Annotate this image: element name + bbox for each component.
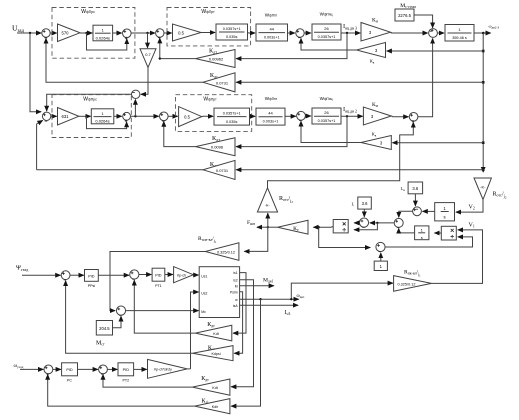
summing junction S3b row2 — [160, 112, 169, 121]
wire L to circle C top — [363, 209, 365, 217]
svg-text:0.0731: 0.0731 — [216, 168, 229, 173]
wire tap down to circle E — [319, 227, 371, 247]
wire Km row2 to sum S5b — [391, 115, 408, 118]
wire Ln to sum A top — [414, 194, 416, 206]
wire sum A to circle D top — [399, 211, 413, 217]
node junction feedback branch Kv row1 — [482, 50, 485, 53]
summing junction S4 row1 — [296, 29, 304, 37]
wire Kp-ch*sin2y to Us2 riser — [187, 368, 190, 370]
svg-text:631: 631 — [62, 114, 70, 119]
wire Kdi to W1 bottom — [48, 375, 195, 407]
node junction Iyac row2 — [346, 115, 348, 117]
svg-text:Кв: Кв — [370, 59, 375, 65]
wire is2 down to gain Kdt2 — [231, 280, 253, 387]
wire 631 to integrator row2 — [79, 115, 91, 117]
svg-text:44: 44 — [268, 111, 273, 116]
wire junction down to gain Rple-vl — [244, 227, 267, 251]
svg-text:26: 26 — [324, 110, 329, 115]
wire w down to gain Kdi — [231, 299, 260, 406]
wire feedforward loop into S2 — [87, 33, 127, 50]
gain 0.5 row2 — [179, 107, 202, 127]
node Fnat output arrow — [257, 226, 268, 228]
svg-text:PPsi: PPsi — [88, 284, 96, 288]
wire Kdt row2 to S3b bottom — [164, 122, 196, 147]
block integrator 1/s no.1 — [435, 203, 455, 221]
svg-text:WфПяц: WфПяц — [320, 96, 333, 101]
wire integrator to S2b — [114, 115, 122, 117]
block PID PT2 — [118, 363, 134, 376]
wire S2 to S3 — [131, 32, 155, 34]
block integrator 1/0.0264s row1 — [93, 25, 113, 41]
svg-text:0.325/0.12: 0.325/0.12 — [398, 282, 416, 286]
wire Mc-summ to S5 top — [414, 15, 433, 28]
summing junction P2 — [130, 270, 139, 279]
svg-text:Kdpsi: Kdpsi — [212, 352, 221, 356]
wire Kdpsi to P1 bottom — [66, 281, 193, 353]
wire S5b output up to S5 bottom — [418, 39, 433, 117]
svg-text:Psim: Psim — [230, 291, 238, 295]
wire S5 to inertia block — [437, 32, 444, 34]
block (0.0357s+1)/0.035s row1 — [216, 24, 248, 40]
gain -k- Rots/j2 (up) — [257, 188, 277, 212]
wire Kdt2 to W2 bottom — [103, 375, 192, 388]
wire S3 to gain 0.5 — [164, 32, 172, 34]
wire tap up to circle Q bottom — [134, 100, 136, 117]
wire branch to gain Kds row2 — [236, 169, 483, 171]
wire down into gain 0.7 — [147, 33, 149, 48]
block constant Mst 204.5 — [96, 321, 112, 336]
wire omega feedback into S6 lower-left — [37, 120, 43, 169]
wire omega feedback trunk down to Rots gain — [482, 33, 484, 172]
wire Q output to S6 top — [47, 94, 132, 111]
wire Kp-ch to Us1 — [193, 274, 198, 276]
node junction feedback branch Kds row1 — [482, 81, 485, 84]
summing junction S1 — [42, 29, 50, 37]
wire PPsi to sum P2 — [98, 274, 129, 276]
wire Rple-vl to Mst sum circle — [110, 252, 205, 311]
wire isA output arrow — [240, 304, 298, 306]
block dashed box WfPrt (current regulator filter) row1 — [167, 8, 251, 46]
svg-text:44: 44 — [269, 27, 274, 32]
svg-text:0.035s: 0.035s — [226, 120, 238, 124]
wire to sum S4b row2 — [285, 115, 296, 117]
svg-text:0.7: 0.7 — [145, 52, 151, 57]
gain 0.7 (down) — [140, 49, 156, 68]
block integrator 1/s no.2 — [415, 226, 429, 240]
gain -K- Rots/j2 (down) — [474, 178, 491, 200]
block integrator 1/0.0264s row2 — [91, 109, 114, 124]
svg-text:0.0357s+1: 0.0357s+1 — [223, 111, 241, 115]
summing junction S2 row1 — [123, 29, 132, 38]
wire 0.5 to lead-lag row2 — [202, 115, 213, 117]
wire V1 from Rpk-vl to multiply input no.1 — [431, 230, 482, 284]
node junction w to Kdi — [259, 298, 261, 300]
gain 0.5 row1 — [173, 24, 202, 41]
node junction on Uzad wire — [29, 32, 31, 34]
wire armature to gain Km row2 — [341, 115, 363, 117]
wire S4 to armature block row1 — [304, 32, 311, 34]
svg-text:0.0264s: 0.0264s — [96, 35, 110, 40]
summing junction A — [413, 207, 422, 216]
svg-text:Кв: Кв — [372, 132, 377, 138]
svg-text:0.5: 0.5 — [184, 114, 190, 119]
wire S6 to gain 631 — [51, 115, 57, 117]
svg-text:is2: is2 — [233, 278, 237, 282]
svg-text:Kp-ch*sin2y: Kp-ch*sin2y — [154, 368, 172, 372]
node junction omega output — [482, 32, 485, 35]
wire Km to sum S5 — [391, 32, 428, 34]
wire Uzad branch down to sum S6 — [30, 33, 41, 112]
svg-text:PID: PID — [155, 274, 162, 278]
svg-text:Mс: Mс — [201, 310, 206, 314]
svg-text:is1: is1 — [233, 271, 237, 275]
wire Iyac tap to gain Kdt row2 — [236, 116, 347, 146]
svg-text:204.5: 204.5 — [99, 326, 110, 331]
svg-text:PT1: PT1 — [155, 284, 162, 288]
node junction feedback branch Kds row2 — [482, 169, 485, 172]
wire Psim to gain Kdpsi — [234, 292, 242, 353]
svg-text:0.0096: 0.0096 — [211, 145, 224, 150]
node junction tap to circle Q — [134, 115, 136, 117]
wire S4b to armature row2 — [305, 115, 310, 117]
svg-text:ωдв1: ωдв1 — [297, 294, 305, 299]
wire PT2 to gain Kp-ch*sin2y — [134, 368, 147, 370]
summing junction Mst — [116, 306, 125, 315]
wire w output arrow omega dv1 — [240, 298, 299, 300]
block dashed box WfPrs row2 — [52, 95, 131, 138]
svg-text:0.003s+1: 0.003s+1 — [264, 36, 280, 40]
summing junction C — [359, 218, 368, 227]
summing junction W2 — [99, 365, 108, 374]
node junction feedforward row1 — [85, 32, 87, 34]
summing junction S6 row2 — [42, 112, 50, 120]
wire lead-lag to thyristor row2 — [250, 115, 256, 117]
wire Uzad to sum S1 — [17, 32, 41, 34]
svg-text:PID: PID — [88, 274, 95, 278]
wire branch to gain Kds row1 — [236, 81, 483, 83]
wire Iyac tap to gain Kdt row1 — [236, 33, 347, 59]
gain Kp-ch — [174, 267, 194, 283]
block inertia 1/359.46s — [445, 25, 474, 42]
wire 570 to integrator block — [80, 32, 92, 34]
svg-text:26: 26 — [324, 26, 329, 31]
summing junction P1 — [61, 271, 70, 280]
block dashed box WfPrt row2 — [176, 95, 252, 132]
node junction Fnat — [267, 226, 269, 228]
wire Kds row1 to S1 bottom — [46, 38, 203, 82]
block constant 1 — [374, 261, 387, 270]
wire P1 to PID PPsi — [70, 274, 84, 276]
wire S1 to gain 570 — [50, 32, 56, 34]
block PID PPsi — [85, 270, 99, 282]
svg-text:Us1: Us1 — [201, 274, 207, 278]
node junction w to V1 — [290, 298, 292, 300]
svg-text:WфПтп: WфПтп — [265, 13, 278, 18]
wire omega dv2-3 output — [474, 32, 491, 34]
wire circle D to circle C — [370, 222, 394, 224]
wire Mst const to Mst sum bottom — [113, 316, 122, 327]
summing junction Q (row coupling) — [132, 90, 140, 98]
node junction div tap — [376, 222, 378, 224]
svg-text:Kdt: Kdt — [213, 332, 218, 336]
wire omega dv1 tap to Rpk-vl input — [291, 283, 393, 299]
summing junction W1 — [44, 365, 53, 374]
svg-text:0.325/0.12: 0.325/0.12 — [217, 251, 235, 255]
wire 1/s no.1 to sum A — [423, 210, 435, 212]
wire armature to gain Km row1 — [341, 32, 360, 34]
svg-text:PC: PC — [67, 379, 72, 383]
summing junction S4b row2 — [297, 111, 306, 120]
wire Psi gzad to sum P1 — [22, 274, 60, 276]
svg-text:2276.5: 2276.5 — [398, 13, 411, 18]
wire Kdt row1 to S3 bottom — [160, 38, 196, 58]
wire 1/s no.2 to circle D bottom — [399, 228, 415, 233]
wire Mc input from Mst sum — [126, 310, 199, 312]
node junction Iyac row1 — [346, 32, 348, 34]
svg-text:0.003s+1: 0.003s+1 — [263, 120, 279, 124]
gain Kv row1 (EMF feedback) — [357, 43, 386, 58]
node junction feedforward row2 — [85, 115, 87, 117]
svg-text:0.0357s+1: 0.0357s+1 — [318, 35, 336, 39]
summing junction E (slip) — [376, 242, 385, 251]
block induction motor model — [199, 267, 239, 318]
wire branch to gain Kv row2 — [393, 142, 484, 144]
svg-text:3.6: 3.6 — [362, 201, 368, 206]
wire Kv output to junction — [268, 226, 278, 228]
wire S2b to S3b — [131, 115, 159, 117]
svg-text:0.035s: 0.035s — [226, 35, 238, 39]
wire PC to sum W2 — [78, 368, 98, 370]
node junction feedback branch Kv row2 — [482, 141, 485, 144]
node junction Kdt row1 wire — [159, 57, 161, 59]
wire branch to gain Kv row1 — [387, 50, 484, 52]
wire V2 into integrator 1/s no.1 — [456, 200, 483, 213]
node junction tap to circle E — [318, 226, 320, 228]
svg-text:-k-: -k- — [265, 203, 270, 208]
gain Kp-ch*sin2y — [148, 359, 188, 378]
block multiply-divide no.2 — [333, 220, 348, 233]
block dashed box WfPrs (speed regulator filter) row1 — [52, 8, 135, 59]
wire PT1 to gain Kp-ch — [165, 274, 173, 276]
wire multiply-divide no.1 to integrator 1/s no.2 — [435, 232, 442, 234]
wire S3b to gain 0.5 row2 — [168, 115, 178, 117]
wire 0.5 to lead-lag block — [201, 32, 215, 34]
svg-text:0.00962: 0.00962 — [209, 57, 224, 62]
svg-text:PID: PID — [123, 368, 130, 372]
svg-text:L: L — [352, 202, 355, 207]
wire 0.7 to circle Q — [141, 68, 148, 95]
wire Kv row1 to S4 bottom — [301, 38, 357, 50]
block PID PT1 — [152, 268, 165, 281]
wire circle E to divide input no.1 — [385, 237, 472, 247]
summing junction S5b row2 — [409, 113, 418, 122]
wire Kv row2 to S4b bottom — [301, 121, 361, 142]
svg-text:359.46 s: 359.46 s — [452, 36, 467, 40]
gain 631 row2 — [58, 108, 79, 126]
node junction tap to 0.7 — [146, 32, 148, 34]
svg-text:0.0357s+1: 0.0357s+1 — [318, 119, 336, 123]
svg-text:M: M — [235, 284, 238, 288]
summing junction D — [394, 218, 403, 227]
svg-text:570: 570 — [62, 31, 70, 36]
wire is1 to gain Kdt1 — [233, 273, 246, 334]
svg-text:PT2: PT2 — [123, 379, 130, 383]
svg-text:PID: PID — [66, 368, 73, 372]
wire junction up into -k- Rots/j2 (up) — [267, 213, 269, 227]
svg-text:3.6: 3.6 — [412, 186, 418, 191]
svg-text:0.5: 0.5 — [178, 30, 184, 35]
summing junction S5 — [429, 29, 438, 38]
wire tap down to divide input — [354, 223, 377, 230]
wire P2 to PID PT1 — [139, 274, 151, 276]
block PID PC — [62, 363, 78, 376]
wire constant 1 to circle E bottom — [380, 253, 382, 261]
svg-text:0.0731: 0.0731 — [216, 80, 229, 85]
svg-text:0.0264s: 0.0264s — [95, 119, 109, 124]
wire multiply-divide no.2 to gain Kv(nat) — [314, 225, 334, 228]
wire integrator to S2 — [113, 32, 122, 34]
svg-text:Kdt: Kdt — [212, 386, 217, 390]
summing junction S2b row2 — [123, 112, 131, 120]
wire feedforward loop into S2b — [87, 116, 127, 128]
svg-text:WфПтп: WфПтп — [265, 96, 278, 101]
wire W2 to PID PT2 — [107, 368, 117, 370]
wire omega uzad to sum W1 — [20, 368, 43, 370]
gain Kv natural force — [278, 220, 308, 234]
svg-text:Kp-ch: Kp-ch — [177, 273, 186, 277]
svg-text:-K-: -K- — [480, 185, 486, 190]
block multiply-divide no.1 — [441, 226, 456, 240]
block (0.0357s+1)/0.035s row2 — [214, 108, 250, 125]
svg-text:WфПяц: WфПяц — [320, 12, 333, 17]
wire Kdt1 to P2 bottom — [134, 280, 195, 333]
gain 570 — [58, 24, 81, 42]
svg-text:Us2: Us2 — [201, 291, 207, 295]
svg-text:s: s — [421, 235, 423, 240]
wire W1 to PID PC — [53, 368, 61, 370]
svg-text:isA: isA — [233, 304, 238, 308]
svg-text:Kdir: Kdir — [212, 405, 219, 409]
wire circle C to multiply input — [354, 222, 359, 224]
wire Us2 input from Kp-ch*sin2y — [191, 292, 199, 369]
wire to sum S4 row1 — [288, 32, 295, 34]
wire lead-lag to thyristor block row1 — [248, 32, 256, 35]
wire Kds row2 back to S6 (long) — [37, 169, 203, 171]
svg-text:0.0357s+1: 0.0357s+1 — [223, 27, 241, 31]
wire -k- output to S5b bottom — [268, 122, 414, 187]
summing junction S3 row1 — [156, 29, 164, 37]
svg-text:s: s — [444, 215, 446, 220]
